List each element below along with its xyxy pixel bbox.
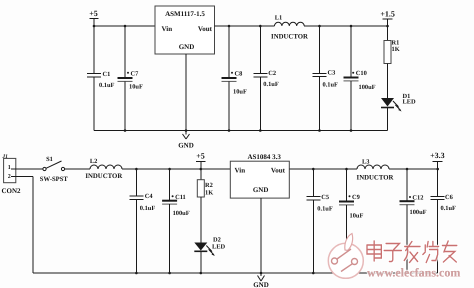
junction C9/top bus (345, 168, 348, 171)
capacitor C3 0.1uF (313, 26, 339, 131)
junction C6/+3.3 (436, 168, 439, 171)
resistor R1 1K (384, 26, 400, 98)
svg-text:100uF: 100uF (173, 210, 190, 217)
svg-text:Vin: Vin (162, 25, 173, 33)
capacitor C11 100uF (polarized) (162, 169, 190, 273)
wire S1 to L2 (65, 168, 90, 170)
svg-text:CON2: CON2 (2, 187, 22, 195)
svg-text:C6: C6 (445, 194, 454, 201)
resistor R2 1K (197, 169, 213, 243)
svg-text:ASM1117-1.5: ASM1117-1.5 (165, 10, 205, 18)
wire bottom bus (bottom circuit) (33, 272, 438, 274)
svg-text:100uF: 100uF (410, 209, 427, 216)
watermark text 电子发烧友 (367, 241, 457, 263)
capacitor C12 100uF (polarized) (400, 169, 427, 273)
connector J1 CON2 (1, 154, 21, 195)
svg-text:+5: +5 (196, 152, 205, 161)
svg-text:C5: C5 (321, 194, 329, 201)
svg-text:C1: C1 (103, 71, 111, 78)
junction C4/bottom bus (135, 272, 138, 275)
svg-text:www.elecfans.com: www.elecfans.com (367, 266, 460, 280)
capacitor C6 0.1uF (431, 169, 456, 273)
svg-text:INDUCTOR: INDUCTOR (357, 175, 394, 182)
svg-text:C8: C8 (235, 71, 243, 78)
regulator U2 AS1084 3.3 (230, 153, 289, 198)
junction C8/top bus (228, 25, 231, 28)
junction +5b/R2 (200, 168, 203, 171)
svg-text:1K: 1K (205, 190, 213, 197)
svg-text:GND: GND (178, 142, 194, 150)
svg-text:L2: L2 (90, 158, 97, 165)
svg-text:10uF: 10uF (350, 212, 364, 219)
svg-text:LED: LED (403, 99, 417, 106)
wire top bus left (+5 to U1 Vin) (94, 25, 155, 27)
svg-text:LED: LED (212, 244, 226, 251)
svg-text:Vout: Vout (198, 25, 213, 33)
svg-text:D2: D2 (213, 237, 221, 244)
regulator U1 ASM1117-1.5 (155, 6, 215, 54)
junction C3/bottom bus (318, 129, 321, 132)
svg-text:Vin: Vin (235, 167, 246, 175)
svg-text:0.1uF: 0.1uF (317, 205, 333, 212)
svg-text:C9: C9 (352, 194, 360, 201)
svg-text:INDUCTOR: INDUCTOR (271, 33, 308, 40)
power +5 (bottom) (196, 152, 206, 170)
capacitor C5 0.1uF (306, 169, 333, 273)
junction C10/bottom bus (350, 129, 353, 132)
svg-text:+3.3: +3.3 (430, 151, 445, 160)
svg-text:C4: C4 (145, 193, 154, 200)
svg-text:L1: L1 (275, 15, 282, 22)
junction C3/top bus (318, 25, 321, 28)
capacitor C4 0.1uF (129, 169, 155, 273)
svg-text:Vout: Vout (271, 167, 286, 175)
capacitor C1 0.1uF (87, 26, 115, 131)
wire top bus (L2 to U2 Vin) (122, 168, 230, 170)
wire top bus (U2 Vout to L3) (289, 168, 357, 170)
svg-text:C2: C2 (268, 70, 276, 77)
svg-text:C12: C12 (412, 195, 423, 202)
svg-text:GND: GND (253, 281, 269, 288)
svg-text:2: 2 (8, 174, 11, 180)
svg-text:0.1uF: 0.1uF (99, 82, 115, 89)
svg-text:S1: S1 (46, 156, 53, 163)
wire top bus (L3 to +3.3) (389, 168, 438, 170)
junction C11/bottom bus (168, 272, 171, 275)
junction C5/top bus (312, 168, 315, 171)
wire bottom bus (top circuit) (94, 130, 388, 132)
ground (bottom circuit) (253, 273, 269, 288)
svg-text:C10: C10 (356, 70, 367, 77)
junction GND/bottom bus (185, 129, 188, 132)
svg-text:C7: C7 (131, 71, 140, 78)
LED D2 (194, 237, 225, 274)
capacitor C2 0.1uF (253, 26, 279, 131)
wire U2 GND pin to bottom bus (260, 198, 262, 273)
watermark logo circle (328, 234, 363, 279)
svg-text:+1.5: +1.5 (380, 10, 395, 19)
junction C2/top bus (259, 25, 262, 28)
junction GND2/bottom bus (260, 272, 263, 275)
junction C10/top bus (350, 25, 353, 28)
wire top bus (U1 Vout to L1) (215, 25, 275, 27)
wire U1 GND pin to bottom bus (185, 54, 187, 131)
inductor L1 (271, 15, 308, 41)
junction C7/bottom bus (124, 129, 127, 132)
junction C4/top bus (135, 168, 138, 171)
power +1.5 (380, 10, 395, 27)
svg-text:0.1uF: 0.1uF (441, 205, 457, 212)
svg-text:1: 1 (8, 165, 11, 171)
svg-text:GND: GND (253, 186, 269, 194)
svg-text:R2: R2 (205, 182, 213, 189)
junction D2/bottom bus (200, 272, 203, 275)
svg-text:C11: C11 (175, 194, 186, 201)
switch S1 SW-SPST (40, 156, 69, 183)
svg-text:100uF: 100uF (359, 84, 376, 91)
junction C2/bottom bus (259, 129, 262, 132)
ground (top circuit) (178, 131, 194, 150)
inductor L2 (85, 158, 122, 180)
inductor L3 (357, 158, 394, 181)
svg-text:INDUCTOR: INDUCTOR (85, 173, 122, 180)
svg-text:0.1uF: 0.1uF (323, 81, 339, 88)
svg-text:C3: C3 (328, 69, 336, 76)
junction +5/C1 (93, 25, 96, 28)
wire J1 pin2 down to bottom bus (16, 177, 33, 274)
junction C8/bottom bus (228, 129, 231, 132)
capacitor C9 10uF (polarized) (339, 169, 363, 273)
svg-text:10uF: 10uF (129, 84, 143, 91)
svg-text:AS1084 3.3: AS1084 3.3 (247, 153, 281, 161)
capacitor C8 10uF (polarized) (222, 26, 247, 131)
junction R1/+1.5 (386, 25, 389, 28)
LED D1 (381, 93, 416, 131)
capacitor C10 100uF (polarized) (344, 26, 376, 131)
junction C7/top bus (124, 25, 127, 28)
junction C5/bottom bus (312, 272, 315, 275)
svg-text:SW-SPST: SW-SPST (40, 176, 69, 183)
svg-text:0.1uF: 0.1uF (140, 205, 156, 212)
wire J1 pin1 to S1 (16, 168, 43, 170)
wire top bus (L1 to +1.5) (304, 25, 387, 27)
svg-text:+5: +5 (89, 9, 98, 18)
svg-text:0.1uF: 0.1uF (263, 81, 279, 88)
svg-text:GND: GND (179, 43, 195, 51)
svg-text:10uF: 10uF (233, 89, 247, 96)
svg-text:1K: 1K (392, 46, 400, 53)
junction C11/top bus (168, 168, 171, 171)
power +5 (top) (89, 9, 98, 26)
power +3.3 (430, 151, 445, 169)
capacitor C7 10uF (polarized) (118, 26, 143, 131)
svg-text:L3: L3 (362, 158, 369, 165)
junction C12/top bus (406, 168, 409, 171)
